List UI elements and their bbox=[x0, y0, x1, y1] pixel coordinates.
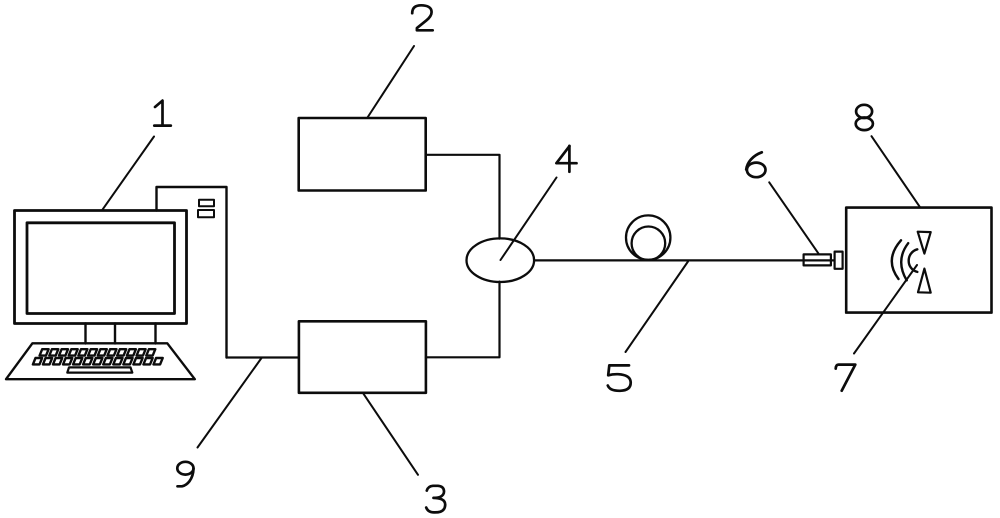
wire box3 to coupler bbox=[426, 282, 500, 358]
fiber coil inner circle bbox=[632, 227, 666, 261]
leader line 9 bbox=[198, 358, 262, 448]
leader line 4 bbox=[501, 178, 557, 261]
sensor arc 1 bbox=[892, 240, 901, 279]
label 6 bbox=[746, 152, 765, 177]
connector 6 main rectangle bbox=[804, 254, 831, 265]
monitor inner screen bbox=[27, 223, 175, 314]
label 7 bbox=[836, 365, 856, 391]
tower slot 2 bbox=[198, 210, 214, 217]
box 2 (signal generator) bbox=[299, 118, 426, 191]
label 3 bbox=[426, 486, 445, 513]
sensor lower triangle bbox=[918, 269, 931, 293]
label 4 bbox=[556, 146, 576, 172]
leader line 6 bbox=[769, 182, 818, 253]
leader line 1 bbox=[102, 137, 154, 211]
label 9 bbox=[177, 462, 193, 486]
computer tower case bbox=[157, 187, 227, 358]
fiber line 5 bbox=[534, 259, 834, 261]
leader line 2 bbox=[368, 46, 415, 118]
wire box2 to coupler bbox=[426, 155, 500, 239]
keyboard key row 2 bbox=[33, 358, 163, 364]
sensor upper triangle bbox=[918, 232, 931, 254]
coupler ellipse 4 bbox=[467, 238, 535, 282]
keyboard key row 1 bbox=[40, 349, 156, 355]
keyboard body bbox=[6, 343, 195, 379]
sensor arc 2 bbox=[901, 243, 908, 280]
label 2 bbox=[412, 5, 433, 30]
label 8 bbox=[856, 105, 873, 130]
wire computer to box3 bbox=[227, 356, 299, 358]
box 8 (detector housing) bbox=[846, 208, 991, 313]
label 1 bbox=[154, 101, 171, 126]
leader line 3 bbox=[364, 394, 419, 475]
box 3 (driver) bbox=[299, 321, 426, 393]
monitor stand leg line middle bbox=[114, 324, 116, 344]
keyboard spacebar bbox=[67, 367, 132, 372]
leader line 8 bbox=[872, 136, 921, 207]
tower slot 1 bbox=[199, 200, 214, 206]
leader line 5 bbox=[626, 262, 689, 353]
monitor stand leg line right bbox=[154, 324, 156, 344]
leader line 7 bbox=[854, 265, 917, 354]
monitor stand leg line left bbox=[84, 324, 86, 344]
connector 6 flange bbox=[835, 252, 843, 269]
fiber coil outer circle bbox=[626, 215, 670, 259]
label 5 bbox=[608, 365, 631, 390]
monitor outer frame bbox=[15, 211, 187, 324]
sensor arc 3 bbox=[909, 249, 918, 272]
